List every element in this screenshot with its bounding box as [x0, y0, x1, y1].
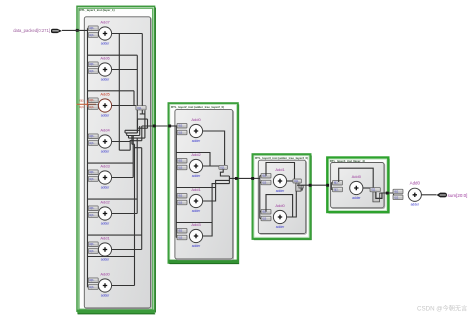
svg-text:Add7: Add7	[100, 19, 110, 24]
svg-text:Add1: Add1	[100, 235, 110, 240]
svg-text:I1[3..: I1[3..	[80, 106, 86, 109]
svg-text:adder: adder	[192, 244, 201, 248]
svg-text:I0[2..: I0[2..	[334, 182, 340, 185]
svg-text:I0[3..: I0[3..	[89, 135, 95, 138]
svg-text:I0[3..: I0[3..	[178, 160, 184, 163]
svg-text:I0[2..: I0[2..	[394, 191, 400, 194]
svg-text:I1[3..: I1[3..	[89, 70, 95, 73]
svg-text:I1[3..: I1[3..	[89, 178, 95, 181]
svg-text:data_packed[0:271]: data_packed[0:271]	[13, 28, 50, 33]
svg-text:I1[3..: I1[3..	[89, 250, 95, 253]
svg-text:adder: adder	[101, 257, 110, 261]
svg-text:Add4: Add4	[100, 127, 110, 132]
svg-text:adder: adder	[192, 174, 201, 178]
svg-text:O[2..: O[2..	[371, 189, 377, 192]
svg-text:adder: adder	[101, 113, 110, 117]
svg-text:I0[3..: I0[3..	[80, 100, 86, 103]
svg-text:I0[3..: I0[3..	[89, 207, 95, 210]
svg-text:I1[2..: I1[2..	[394, 196, 400, 199]
svg-text:I1[3..: I1[3..	[178, 167, 184, 170]
svg-text:adder: adder	[192, 209, 201, 213]
svg-text:adder: adder	[352, 196, 361, 200]
svg-text:adder: adder	[276, 189, 285, 193]
svg-text:Add0: Add0	[352, 174, 362, 179]
svg-text:I0[3..: I0[3..	[89, 63, 95, 66]
svg-text:I1[3..: I1[3..	[89, 142, 95, 145]
svg-text:RTL_layer2_inst (adder_tree_la: RTL_layer2_inst (adder_tree_layer2_0)	[171, 105, 224, 109]
svg-text:I0[3..: I0[3..	[89, 99, 95, 102]
svg-text:adder: adder	[276, 225, 285, 229]
svg-text:CSDN @今朝无言: CSDN @今朝无言	[417, 304, 467, 312]
svg-text:I0[3..: I0[3..	[89, 279, 95, 282]
svg-text:RTL_layer1_inst (layer_1): RTL_layer1_inst (layer_1)	[80, 8, 115, 12]
svg-text:I0[3..: I0[3..	[89, 27, 95, 30]
svg-text:Add3: Add3	[100, 163, 110, 168]
svg-text:RTL_layer3_inst (adder_tree_la: RTL_layer3_inst (adder_tree_layer3_0)	[255, 156, 308, 160]
svg-text:adder: adder	[101, 293, 110, 297]
svg-text:I0[3..: I0[3..	[89, 243, 95, 246]
svg-text:Add0: Add0	[100, 271, 110, 276]
svg-text:O[2..: O[2..	[220, 166, 226, 169]
svg-text:O[2..: O[2..	[137, 107, 143, 110]
svg-text:adder: adder	[101, 149, 110, 153]
svg-text:Add0: Add0	[410, 181, 421, 186]
svg-text:I1[3..: I1[3..	[89, 106, 95, 109]
svg-text:I0[3..: I0[3..	[262, 211, 268, 214]
svg-text:I0[3..: I0[3..	[178, 230, 184, 233]
svg-text:I1[3..: I1[3..	[262, 218, 268, 221]
svg-text:I1[3..: I1[3..	[89, 286, 95, 289]
svg-text:adder: adder	[101, 41, 110, 45]
svg-text:I0[3..: I0[3..	[178, 195, 184, 198]
svg-text:adder: adder	[101, 185, 110, 189]
svg-text:Add0: Add0	[275, 203, 285, 208]
svg-text:adder: adder	[101, 77, 110, 81]
svg-text:Add5: Add5	[100, 91, 110, 96]
svg-text:I1[3..: I1[3..	[178, 202, 184, 205]
svg-text:O[2..: O[2..	[294, 180, 300, 183]
svg-text:I0[3..: I0[3..	[262, 175, 268, 178]
svg-text:sum[20:0]: sum[20:0]	[448, 193, 468, 198]
svg-text:I0[3..: I0[3..	[89, 171, 95, 174]
svg-text:I1[3..: I1[3..	[262, 182, 268, 185]
svg-text:I1[3..: I1[3..	[89, 214, 95, 217]
svg-text:I1[3..: I1[3..	[178, 237, 184, 240]
svg-text:Add1: Add1	[275, 167, 285, 172]
svg-text:adder: adder	[192, 139, 201, 143]
svg-text:adder: adder	[101, 221, 110, 225]
svg-text:I1[3..: I1[3..	[178, 132, 184, 135]
svg-text:I1[3..: I1[3..	[89, 34, 95, 37]
svg-text:I0[3..: I0[3..	[178, 125, 184, 128]
svg-text:Add0: Add0	[191, 117, 201, 122]
svg-text:adder: adder	[411, 203, 420, 207]
svg-text:Add2: Add2	[100, 199, 110, 204]
svg-text:I1[2..: I1[2..	[334, 189, 340, 192]
svg-text:Add6: Add6	[100, 55, 110, 60]
